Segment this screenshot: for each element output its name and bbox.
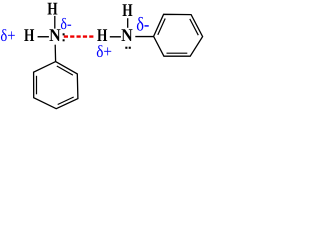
double bond inner line (upper-left edge ring 2) [158,19,165,35]
benzene ring molecule 2 [154,14,203,56]
svg-text:δ-: δ- [136,15,149,36]
svg-text:H: H [122,0,132,20]
wire H-N bond molecule 2 [110,36,121,38]
wire N-ring bond molecule 2 [135,36,153,38]
double bond inner line (bottom-right edge ring 1) [58,97,74,105]
svg-text:H: H [47,0,57,18]
wire vertical H-N bond molecule 2 [127,18,129,28]
wire H-N bond molecule 1 [38,36,49,38]
svg-text:δ-: δ- [60,16,71,33]
svg-text:δ+: δ+ [96,42,112,61]
svg-text:N: N [49,25,61,45]
lone pair colon on N1 [63,33,65,35]
wire vertical H-N bond molecule 1 [54,16,56,29]
svg-text:δ+: δ+ [0,26,15,45]
wire N-ring bond molecule 1 [54,45,56,62]
double bond inner line (left edge ring 1) [36,76,38,95]
svg-text:N: N [121,25,133,45]
lone pair dots under N2 [125,47,127,49]
double bond inner line (top-right edge ring 1) [57,66,73,75]
double bond inner line (bottom edge ring 2) [167,52,188,54]
svg-text:H: H [24,25,34,45]
benzene ring molecule 1 [34,62,78,109]
hydrogen bond red dashed line [64,35,94,37]
double bond inner line (upper-right edge ring 2) [190,19,199,35]
